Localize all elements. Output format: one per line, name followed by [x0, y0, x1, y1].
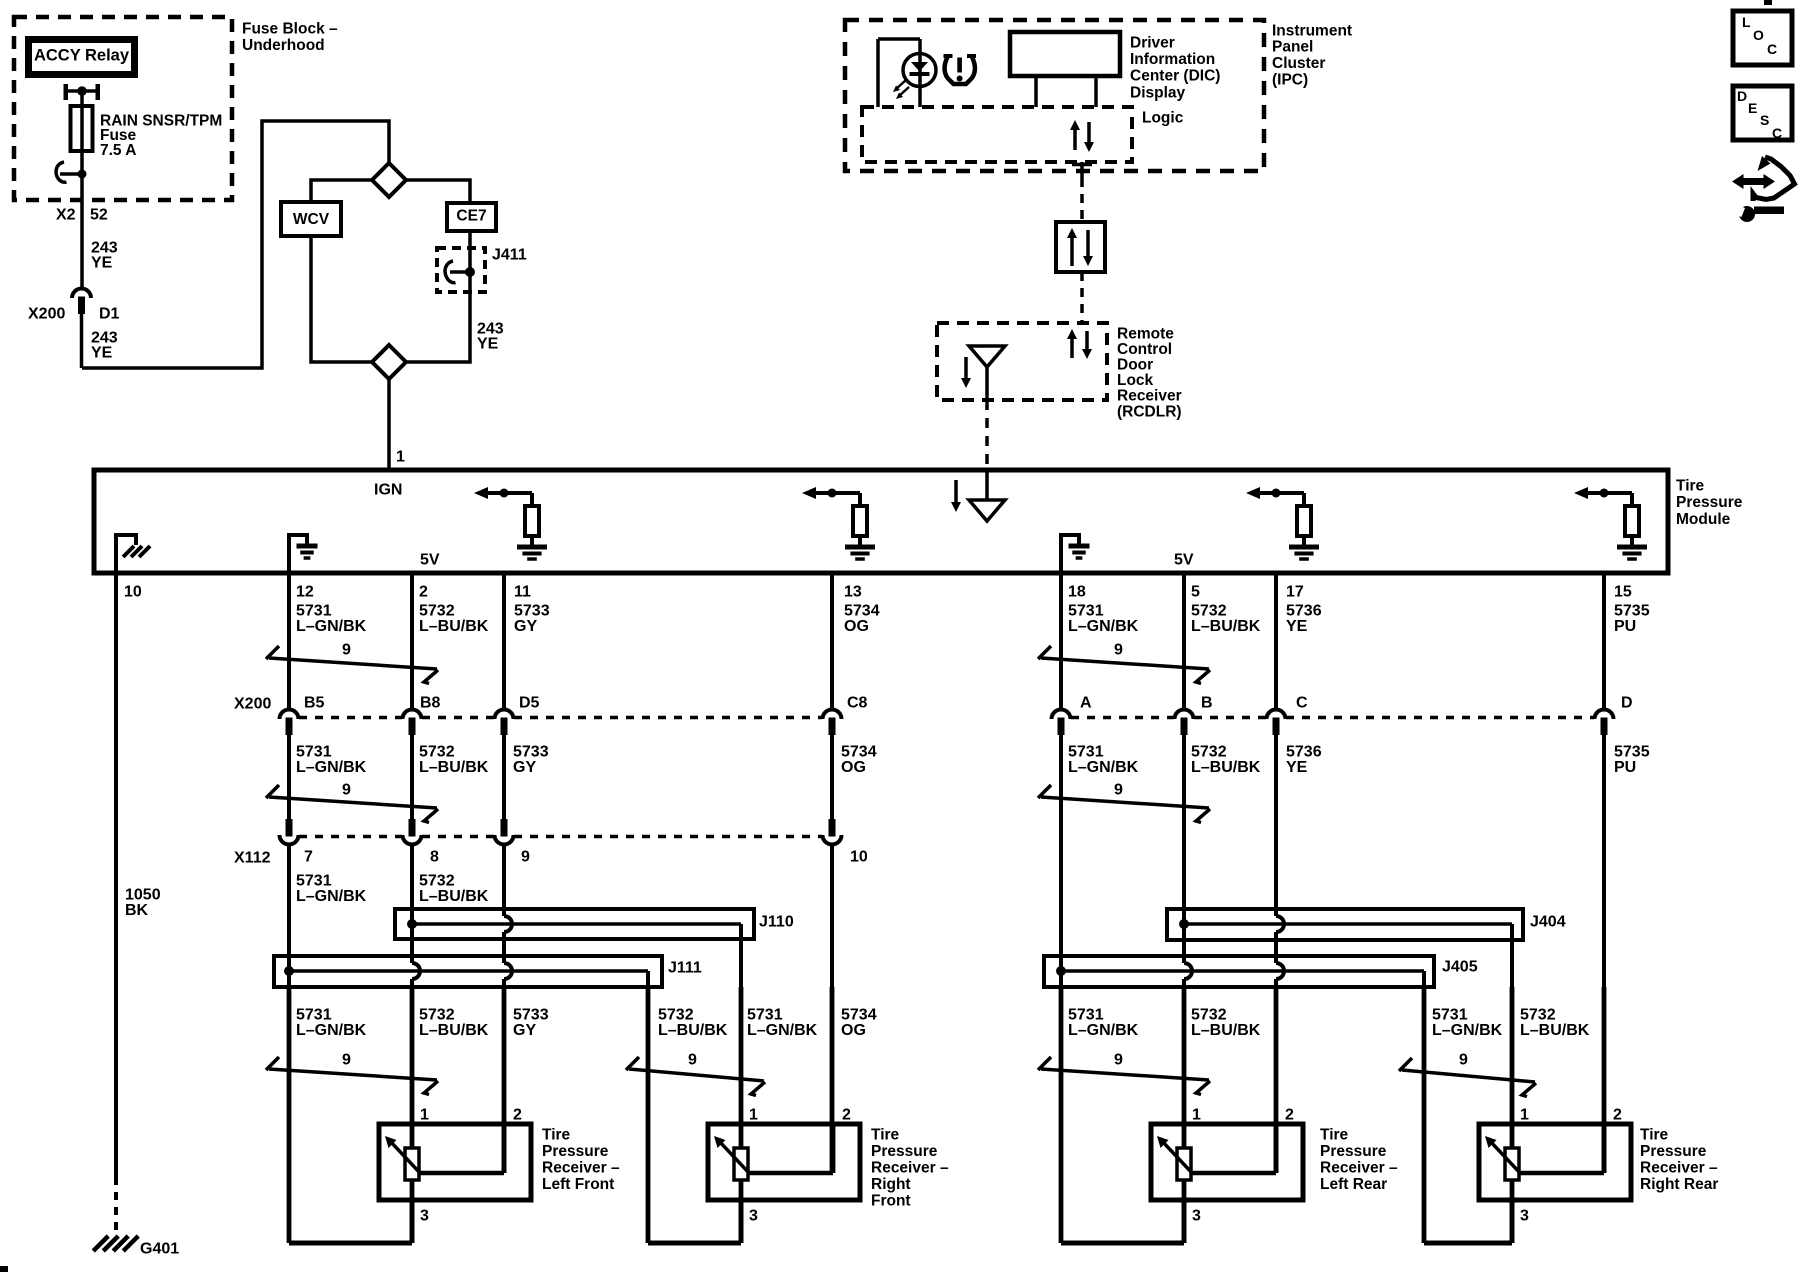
- svg-text:C8: C8: [847, 695, 868, 712]
- svg-text:1: 1: [1192, 1107, 1201, 1124]
- svg-text:D1: D1: [99, 306, 120, 323]
- svg-text:5V: 5V: [420, 552, 440, 569]
- svg-text:10: 10: [124, 584, 142, 601]
- svg-text:5732: 5732: [419, 873, 455, 890]
- svg-text:Left Front: Left Front: [542, 1176, 614, 1193]
- svg-text:5732: 5732: [1520, 1007, 1556, 1024]
- svg-text:Tire: Tire: [542, 1126, 571, 1143]
- svg-text:3: 3: [420, 1208, 429, 1225]
- svg-text:L–BU/BK: L–BU/BK: [1520, 1022, 1590, 1039]
- svg-text:L–GN/BK: L–GN/BK: [296, 618, 367, 635]
- svg-text:5731: 5731: [1068, 603, 1104, 620]
- svg-text:1: 1: [420, 1107, 429, 1124]
- svg-text:L–GN/BK: L–GN/BK: [747, 1022, 818, 1039]
- svg-text:CE7: CE7: [456, 207, 486, 224]
- svg-text:Cluster: Cluster: [1272, 55, 1325, 72]
- svg-text:X200: X200: [28, 306, 65, 323]
- svg-text:Display: Display: [1130, 84, 1186, 101]
- svg-text:5732: 5732: [419, 1007, 455, 1024]
- svg-text:Pressure: Pressure: [1640, 1143, 1707, 1160]
- svg-text:Pressure: Pressure: [1320, 1143, 1387, 1160]
- svg-text:Panel: Panel: [1272, 39, 1313, 56]
- svg-text:Tire: Tire: [1640, 1126, 1669, 1143]
- svg-text:5732: 5732: [1191, 1007, 1227, 1024]
- svg-text:J411: J411: [492, 247, 527, 264]
- svg-text:B: B: [1201, 695, 1213, 712]
- svg-text:5731: 5731: [296, 744, 332, 761]
- svg-text:L–GN/BK: L–GN/BK: [296, 759, 367, 776]
- svg-text:C: C: [1767, 41, 1777, 57]
- svg-text:5V: 5V: [1174, 552, 1194, 569]
- svg-text:Tire: Tire: [871, 1126, 900, 1143]
- svg-text:L–BU/BK: L–BU/BK: [419, 888, 489, 905]
- svg-text:L–GN/BK: L–GN/BK: [296, 1022, 367, 1039]
- svg-text:IGN: IGN: [374, 482, 402, 499]
- svg-text:PU: PU: [1614, 618, 1636, 635]
- svg-text:OG: OG: [844, 618, 869, 635]
- svg-text:5731: 5731: [1068, 1007, 1104, 1024]
- svg-text:5734: 5734: [841, 1007, 877, 1024]
- svg-text:5734: 5734: [841, 744, 877, 761]
- svg-text:L–BU/BK: L–BU/BK: [1191, 618, 1261, 635]
- svg-text:5733: 5733: [513, 1007, 549, 1024]
- svg-text:11: 11: [514, 584, 531, 601]
- svg-text:D: D: [1621, 695, 1633, 712]
- svg-text:5732: 5732: [419, 603, 455, 620]
- svg-text:Underhood: Underhood: [242, 37, 325, 54]
- svg-text:Logic: Logic: [1142, 109, 1184, 126]
- svg-text:X200: X200: [234, 696, 271, 713]
- svg-text:2: 2: [1285, 1107, 1294, 1124]
- svg-text:9: 9: [342, 782, 351, 799]
- svg-text:B8: B8: [420, 695, 441, 712]
- svg-text:Receiver –: Receiver –: [1320, 1159, 1398, 1176]
- svg-text:PU: PU: [1614, 759, 1636, 776]
- svg-text:L–GN/BK: L–GN/BK: [1068, 1022, 1139, 1039]
- svg-text:OG: OG: [841, 759, 866, 776]
- svg-text:5: 5: [1191, 584, 1200, 601]
- svg-text:2: 2: [1613, 1107, 1622, 1124]
- svg-text:9: 9: [1114, 642, 1123, 659]
- svg-text:YE: YE: [1286, 618, 1308, 635]
- svg-text:D: D: [1737, 88, 1747, 104]
- svg-text:18: 18: [1068, 584, 1086, 601]
- svg-text:L–BU/BK: L–BU/BK: [1191, 759, 1261, 776]
- svg-text:1: 1: [749, 1107, 758, 1124]
- svg-text:Pressure: Pressure: [542, 1143, 609, 1160]
- svg-text:5732: 5732: [1191, 744, 1227, 761]
- svg-text:2: 2: [419, 584, 428, 601]
- svg-text:9: 9: [342, 1052, 351, 1069]
- svg-text:Front: Front: [871, 1192, 911, 1209]
- svg-text:5731: 5731: [296, 1007, 332, 1024]
- svg-text:Lock: Lock: [1117, 372, 1154, 389]
- svg-text:L–BU/BK: L–BU/BK: [1191, 1022, 1261, 1039]
- svg-text:15: 15: [1614, 584, 1632, 601]
- svg-text:YE: YE: [1286, 759, 1308, 776]
- svg-text:J405: J405: [1442, 959, 1478, 976]
- svg-text:1: 1: [396, 449, 405, 466]
- svg-text:5732: 5732: [658, 1007, 694, 1024]
- svg-text:ACCY Relay: ACCY Relay: [34, 47, 130, 65]
- svg-text:J404: J404: [1530, 914, 1566, 931]
- svg-text:J111: J111: [668, 960, 702, 977]
- svg-text:Remote: Remote: [1117, 325, 1174, 342]
- svg-text:3: 3: [1520, 1208, 1529, 1225]
- svg-text:Door: Door: [1117, 357, 1153, 374]
- svg-text:9: 9: [688, 1052, 697, 1069]
- svg-text:Tire: Tire: [1320, 1126, 1349, 1143]
- svg-text:Receiver: Receiver: [1117, 388, 1182, 405]
- svg-text:J110: J110: [759, 914, 794, 931]
- svg-text:L: L: [1742, 14, 1751, 30]
- svg-text:7.5 A: 7.5 A: [100, 142, 136, 159]
- svg-text:L–BU/BK: L–BU/BK: [419, 618, 489, 635]
- svg-text:8: 8: [430, 849, 439, 866]
- svg-text:Center (DIC): Center (DIC): [1130, 68, 1220, 85]
- svg-text:L–GN/BK: L–GN/BK: [1432, 1022, 1503, 1039]
- svg-text:GY: GY: [514, 618, 537, 635]
- svg-text:9: 9: [1114, 1052, 1123, 1069]
- svg-text:13: 13: [844, 584, 862, 601]
- svg-text:9: 9: [1114, 782, 1123, 799]
- svg-text:GY: GY: [513, 1022, 536, 1039]
- svg-text:Right: Right: [871, 1176, 911, 1193]
- svg-text:G401: G401: [140, 1241, 179, 1258]
- svg-text:Receiver –: Receiver –: [1640, 1159, 1718, 1176]
- svg-text:E: E: [1748, 100, 1757, 116]
- svg-text:A: A: [1080, 695, 1092, 712]
- svg-text:OG: OG: [841, 1022, 866, 1039]
- svg-text:1050: 1050: [125, 887, 161, 904]
- svg-text:D5: D5: [519, 695, 540, 712]
- svg-text:X2: X2: [56, 207, 76, 224]
- svg-text:GY: GY: [513, 759, 536, 776]
- svg-text:5735: 5735: [1614, 603, 1650, 620]
- svg-text:S: S: [1760, 112, 1769, 128]
- svg-text:2: 2: [513, 1107, 522, 1124]
- svg-text:L–BU/BK: L–BU/BK: [658, 1022, 728, 1039]
- svg-text:YE: YE: [477, 336, 499, 353]
- svg-text:5735: 5735: [1614, 744, 1650, 761]
- svg-text:5731: 5731: [1068, 744, 1104, 761]
- svg-text:L–GN/BK: L–GN/BK: [1068, 759, 1139, 776]
- svg-text:5736: 5736: [1286, 603, 1322, 620]
- svg-text:Instrument: Instrument: [1272, 22, 1352, 39]
- svg-text:5732: 5732: [419, 744, 455, 761]
- svg-text:YE: YE: [91, 345, 113, 362]
- svg-text:Receiver –: Receiver –: [542, 1159, 620, 1176]
- svg-text:Right Rear: Right Rear: [1640, 1176, 1718, 1193]
- svg-text:2: 2: [842, 1107, 851, 1124]
- svg-text:10: 10: [850, 849, 868, 866]
- svg-text:WCV: WCV: [293, 211, 330, 228]
- svg-text:9: 9: [521, 849, 530, 866]
- svg-text:(IPC): (IPC): [1272, 72, 1308, 89]
- svg-text:Receiver –: Receiver –: [871, 1159, 949, 1176]
- svg-text:5731: 5731: [296, 603, 332, 620]
- svg-text:L–BU/BK: L–BU/BK: [419, 1022, 489, 1039]
- svg-text:52: 52: [90, 207, 108, 224]
- svg-text:C: C: [1296, 695, 1308, 712]
- svg-text:5733: 5733: [513, 744, 549, 761]
- svg-text:Pressure: Pressure: [871, 1143, 938, 1160]
- svg-text:17: 17: [1286, 584, 1304, 601]
- svg-text:5734: 5734: [844, 603, 880, 620]
- svg-text:BK: BK: [125, 902, 149, 919]
- svg-text:C: C: [1772, 125, 1782, 141]
- svg-text:Control: Control: [1117, 341, 1172, 358]
- svg-text:3: 3: [1192, 1208, 1201, 1225]
- svg-text:Module: Module: [1676, 511, 1731, 528]
- svg-text:L–BU/BK: L–BU/BK: [419, 759, 489, 776]
- svg-text:Driver: Driver: [1130, 34, 1175, 51]
- svg-text:L–GN/BK: L–GN/BK: [1068, 618, 1139, 635]
- svg-text:B5: B5: [304, 695, 325, 712]
- svg-text:7: 7: [304, 849, 313, 866]
- svg-text:5731: 5731: [296, 873, 332, 890]
- svg-text:O: O: [1753, 27, 1764, 43]
- svg-text:12: 12: [296, 584, 314, 601]
- svg-text:(RCDLR): (RCDLR): [1117, 403, 1182, 420]
- svg-text:5732: 5732: [1191, 603, 1227, 620]
- svg-text:YE: YE: [91, 255, 113, 272]
- svg-text:5733: 5733: [514, 603, 550, 620]
- svg-text:Left Rear: Left Rear: [1320, 1176, 1387, 1193]
- svg-text:9: 9: [1459, 1052, 1468, 1069]
- svg-text:Tire: Tire: [1676, 477, 1705, 494]
- svg-text:1: 1: [1520, 1107, 1529, 1124]
- svg-text:X112: X112: [234, 850, 271, 867]
- svg-text:Fuse Block –: Fuse Block –: [242, 20, 338, 37]
- svg-text:Pressure: Pressure: [1676, 494, 1743, 511]
- svg-text:3: 3: [749, 1208, 758, 1225]
- svg-text:9: 9: [342, 642, 351, 659]
- svg-text:5731: 5731: [747, 1007, 783, 1024]
- svg-text:5736: 5736: [1286, 744, 1322, 761]
- svg-text:5731: 5731: [1432, 1007, 1468, 1024]
- svg-text:L–GN/BK: L–GN/BK: [296, 888, 367, 905]
- svg-text:Information: Information: [1130, 51, 1215, 68]
